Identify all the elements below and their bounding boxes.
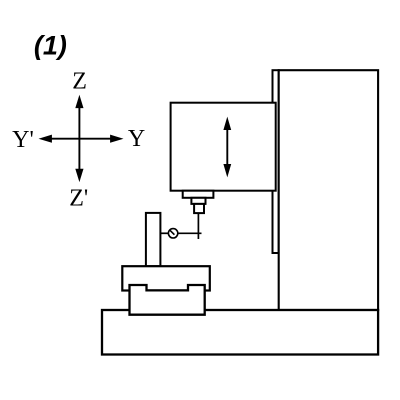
workpiece block with notched top: [130, 285, 205, 315]
machine column z-rail strip: [273, 70, 279, 253]
tool holder step 3: [194, 204, 204, 213]
axis arrowhead Y' (left): [39, 135, 52, 143]
svg-text:Z: Z: [72, 68, 87, 94]
svg-text:Z': Z': [69, 186, 88, 212]
svg-text:Y: Y: [128, 126, 145, 152]
machine base: [102, 310, 378, 355]
svg-text:(1): (1): [34, 30, 67, 60]
spindle flange step 2: [191, 198, 205, 204]
indicator touch line: [178, 232, 201, 234]
spindle head box: [171, 103, 276, 191]
double arrow head up: [223, 117, 231, 130]
indicator stand post: [146, 213, 161, 266]
axis horizontal line Y'-Y: [46, 138, 116, 140]
dial indicator needle: [170, 230, 175, 235]
axis arrowhead Y (right): [110, 135, 123, 143]
axis arrowhead Z (up): [75, 95, 83, 108]
svg-text:Y': Y': [12, 127, 34, 153]
axis arrowhead Z' (down): [75, 169, 83, 182]
tool stylus line: [197, 213, 199, 239]
double arrow in head box: shaft: [226, 127, 228, 167]
spindle flange step 1: [183, 191, 214, 198]
double arrow head down: [223, 164, 231, 177]
axis vertical line Z-Z': [78, 104, 80, 172]
dial indicator circle: [168, 229, 177, 238]
machine column: [279, 70, 378, 310]
table slab: [122, 266, 210, 290]
indicator stem: [160, 232, 168, 234]
